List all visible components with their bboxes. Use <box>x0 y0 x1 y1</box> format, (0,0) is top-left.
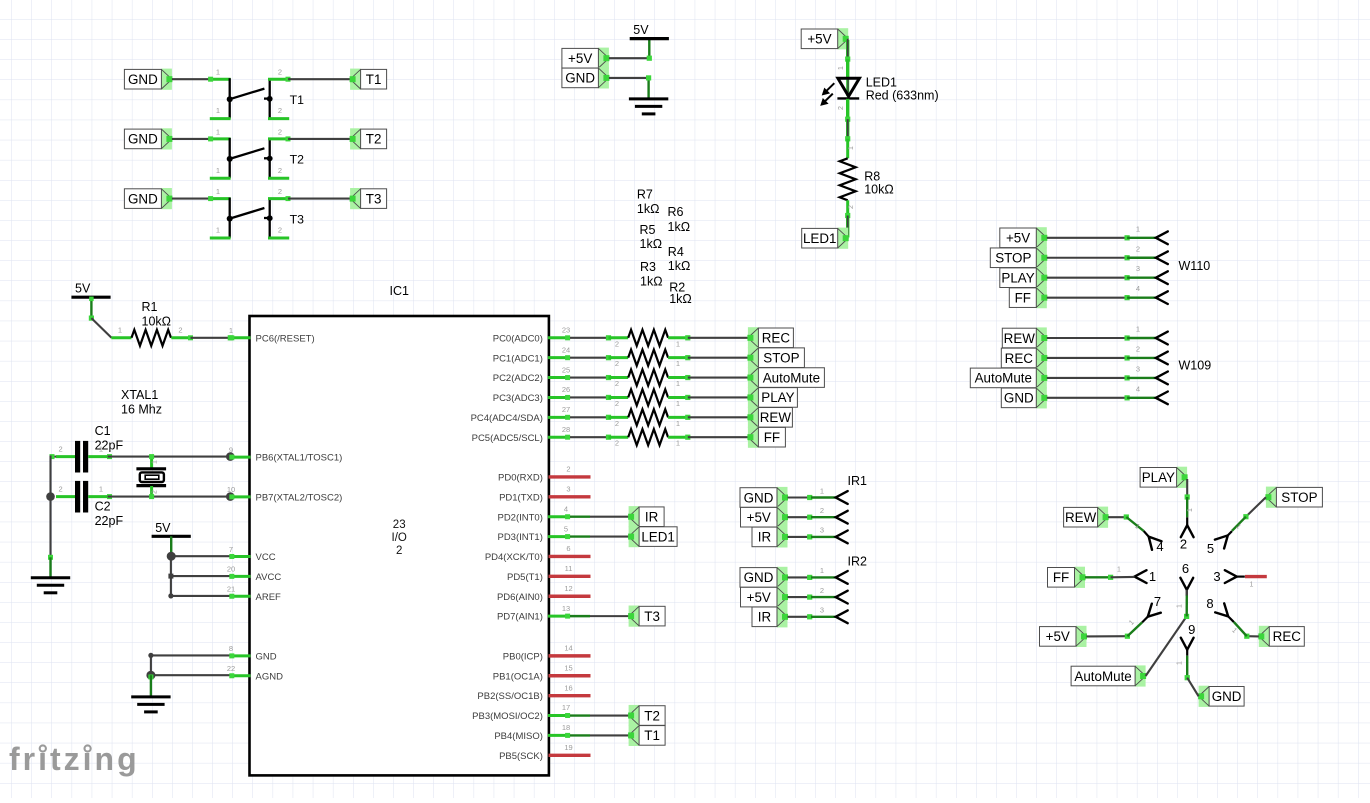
IC1 pin 23 PC0(ADC0) <box>493 326 570 345</box>
resistor value labels R7..R2 <box>637 188 692 306</box>
net label T2 (swT2-out) <box>350 128 387 149</box>
svg-text:GND: GND <box>744 570 774 585</box>
power +5V rail symbol <box>630 23 669 39</box>
svg-text:+5V: +5V <box>747 590 771 605</box>
svg-text:REC: REC <box>1005 351 1034 366</box>
star connector pin 8 fork <box>1206 596 1233 622</box>
star connector pin 5 fork <box>1207 531 1232 556</box>
svg-text:2: 2 <box>278 127 282 136</box>
svg-text:9: 9 <box>229 445 233 454</box>
svg-text:10: 10 <box>227 485 235 494</box>
svg-text:PB0(ICP): PB0(ICP) <box>503 651 543 662</box>
wire R8 to LED1 label <box>845 213 850 238</box>
svg-text:T1: T1 <box>644 728 660 743</box>
svg-text:1: 1 <box>229 326 233 335</box>
net label +5V (w110-+5V) <box>1000 227 1048 248</box>
wire AutoMute to star pin 6 <box>1146 590 1190 676</box>
svg-text:VCC: VCC <box>256 552 276 563</box>
svg-text:3: 3 <box>1136 364 1140 373</box>
svg-text:2: 2 <box>1136 244 1140 253</box>
IC1 pin 16 PB2(SS/OC1B) (unconnected) <box>477 683 590 702</box>
svg-text:R5: R5 <box>640 223 656 237</box>
wire GND to switch T2 pin1 <box>172 138 211 140</box>
svg-text:R3: R3 <box>640 260 656 274</box>
wire resistor R7 to REC label <box>685 335 748 340</box>
power 5V rail (R1) <box>71 282 110 298</box>
svg-text:25: 25 <box>562 365 570 374</box>
connector W109 name <box>1179 359 1212 373</box>
net label T1 (swT1-out) <box>350 69 387 90</box>
wire W109 pin 1 <box>1047 325 1156 341</box>
W109 pin 4 fork <box>1156 392 1168 405</box>
svg-text:2: 2 <box>59 485 63 494</box>
svg-text:PB7(XTAL2/TOSC2): PB7(XTAL2/TOSC2) <box>256 492 343 503</box>
IC1 pin 5 PD3(INT1) <box>497 524 570 543</box>
IC1 pin 2 PD0(RXD) (unconnected) <box>498 465 590 484</box>
svg-text:R4: R4 <box>668 245 684 259</box>
wire IR2 pin 1 <box>788 566 836 580</box>
svg-text:PB6(XTAL1/TOSC1): PB6(XTAL1/TOSC1) <box>256 453 343 464</box>
net label LED1 (led-out) <box>802 228 849 249</box>
svg-text:2: 2 <box>396 545 402 557</box>
svg-text:6: 6 <box>566 544 570 553</box>
svg-text:1: 1 <box>676 379 680 388</box>
svg-text:AutoMute: AutoMute <box>1074 669 1131 684</box>
svg-text:2: 2 <box>1136 344 1140 353</box>
svg-text:1kΩ: 1kΩ <box>640 275 663 289</box>
svg-text:2: 2 <box>1180 537 1187 552</box>
net label GND (swT3-gnd) <box>124 188 172 209</box>
IR2 pin 2 fork <box>836 591 848 604</box>
svg-text:1kΩ: 1kΩ <box>640 237 663 251</box>
svg-text:PD5(T1): PD5(T1) <box>507 572 543 583</box>
IC1 pin 25 PC2(ADC2) <box>493 365 570 384</box>
wire PLAY to star pin 2 <box>1185 479 1194 517</box>
net label +5V (IR1-+5V) <box>741 507 789 528</box>
svg-text:1: 1 <box>1187 508 1194 512</box>
svg-text:1: 1 <box>1149 569 1156 584</box>
IC1 pin 26 PC3(ADC3) <box>493 385 570 404</box>
LED LED1 Red (633nm) <box>820 76 938 106</box>
svg-text:1: 1 <box>820 486 824 495</box>
svg-text:IR2: IR2 <box>848 555 868 569</box>
net label +5V (IR2-+5V) <box>741 587 789 608</box>
net label STOP (res-STOP) <box>747 347 804 368</box>
net label T1 (ic-T1) <box>628 725 665 746</box>
net label REW (star-REW) <box>1064 507 1109 528</box>
IC1 pin 22 AGND <box>227 664 283 682</box>
svg-text:22: 22 <box>227 664 235 673</box>
svg-text:PC6(/RESET): PC6(/RESET) <box>256 333 315 344</box>
svg-text:PC3(ADC3): PC3(ADC3) <box>493 393 543 404</box>
svg-text:PLAY: PLAY <box>761 390 794 405</box>
net label AutoMute (star-AutoMute) <box>1071 665 1146 686</box>
wire W110 pin 1 <box>1047 224 1156 240</box>
svg-text:fritzing: fritzing <box>9 741 140 777</box>
IC1 pin 19 PB5(SCK) (unconnected) <box>499 743 590 762</box>
svg-text:5: 5 <box>1207 541 1214 556</box>
wire GND/AGND to ground <box>146 653 230 696</box>
svg-text:+5V: +5V <box>1046 629 1070 644</box>
svg-text:22pF: 22pF <box>95 514 124 528</box>
wire T2 net from IC <box>570 714 629 716</box>
wire 5V to VCC/AVCC/AREF <box>167 536 231 598</box>
star connector pin 6 fork <box>1180 561 1193 596</box>
wire PC3 to resistor R4 <box>570 395 611 400</box>
svg-text:1: 1 <box>1250 582 1254 589</box>
IC1 pin 14 PB0(ICP) (unconnected) <box>503 644 591 663</box>
IC1 pin 27 PC4(ADC4/SDA) <box>471 405 571 424</box>
capacitor C1 22pF <box>56 424 123 473</box>
wire IR net from IC <box>570 516 629 518</box>
svg-text:C2: C2 <box>95 500 111 514</box>
svg-text:IR: IR <box>645 510 659 525</box>
svg-text:1kΩ: 1kΩ <box>668 220 691 234</box>
svg-text:2: 2 <box>615 399 619 408</box>
wire W110 pin 2 <box>1047 244 1156 260</box>
svg-text:PD4(XCK/T0): PD4(XCK/T0) <box>485 552 543 563</box>
star connector pin 1 fork <box>1135 569 1157 584</box>
net label GND (pwr-gnd) <box>562 67 610 88</box>
svg-text:PB4(MISO): PB4(MISO) <box>494 731 543 742</box>
IC1 pin 7 VCC <box>229 545 276 563</box>
power 5V rail (VCC) <box>152 521 191 537</box>
svg-text:T3: T3 <box>644 609 660 624</box>
svg-text:3: 3 <box>1213 569 1220 584</box>
net label IR (IR1-IR) <box>752 526 788 547</box>
svg-text:1kΩ: 1kΩ <box>668 259 691 273</box>
switch T1 <box>208 68 304 119</box>
svg-text:T3: T3 <box>290 212 305 226</box>
wire IR2 pin 3 <box>788 606 836 620</box>
resistor R3 1k <box>609 409 688 428</box>
svg-text:GND: GND <box>128 191 158 206</box>
net label +5V (pwr-5v) <box>562 48 610 69</box>
ground symbol (top middle) <box>629 99 668 114</box>
wire W110 pin 4 <box>1047 284 1156 300</box>
svg-text:5V: 5V <box>75 282 91 296</box>
svg-text:18: 18 <box>562 723 570 732</box>
svg-text:2: 2 <box>566 465 570 474</box>
star pin 3 unconnected stub <box>1245 577 1267 589</box>
wire PC2 to resistor R5 <box>570 375 611 380</box>
svg-text:5: 5 <box>564 524 568 533</box>
resistor R6 1k <box>609 350 688 369</box>
svg-text:2: 2 <box>615 439 619 448</box>
net label REC (star-REC) <box>1258 626 1304 647</box>
net label T3 (ic-T3) <box>628 606 665 627</box>
wire PC4 to resistor R3 <box>570 415 611 420</box>
svg-text:AVCC: AVCC <box>256 572 282 583</box>
svg-text:PC0(ADC0): PC0(ADC0) <box>493 333 543 344</box>
wire PC0 to resistor R7 <box>570 335 611 340</box>
svg-text:17: 17 <box>562 703 570 712</box>
IC1 pin 21 AREF <box>227 585 281 603</box>
wire IR1 pin 2 <box>788 506 836 520</box>
svg-text:23: 23 <box>393 519 406 531</box>
svg-text:12: 12 <box>564 584 572 593</box>
resistor R7 1k <box>609 330 688 349</box>
svg-text:PD6(AIN0): PD6(AIN0) <box>497 592 543 603</box>
svg-text:2: 2 <box>278 187 282 196</box>
net label GND (w109-GND) <box>1001 387 1047 408</box>
W110 pin 4 fork <box>1156 291 1168 304</box>
connector W110 name <box>1179 259 1211 273</box>
net label GND (IR2-GND) <box>740 567 788 588</box>
svg-text:PB5(SCK): PB5(SCK) <box>499 751 543 762</box>
wire LED1 cathode to R8 <box>838 99 850 142</box>
connector IR2 name <box>848 555 868 569</box>
svg-text:REW: REW <box>1065 510 1097 525</box>
star connector pin 4 fork <box>1144 531 1164 554</box>
svg-text:1: 1 <box>838 66 845 70</box>
wire IR2 pin 2 <box>788 586 836 600</box>
wire PC1 to resistor R6 <box>570 355 611 360</box>
svg-text:2: 2 <box>278 166 282 175</box>
svg-text:2: 2 <box>278 106 282 115</box>
svg-text:T2: T2 <box>290 153 305 167</box>
W109 pin 1 fork <box>1156 332 1168 345</box>
net label +5V (star-5V) <box>1040 626 1088 647</box>
IC1 pin 28 PC5(ADC5/SCL) <box>472 425 571 444</box>
wire C2 to PB7 with crystal junction <box>108 492 235 501</box>
wire switch T1 pin2 to label <box>288 78 350 80</box>
svg-text:Red (633nm): Red (633nm) <box>866 89 939 103</box>
svg-text:9: 9 <box>1188 622 1195 637</box>
wire FF to star pin 1 <box>1085 567 1135 580</box>
svg-text:8: 8 <box>229 644 233 653</box>
resistor R8 10k <box>840 139 894 216</box>
svg-text:IR: IR <box>758 610 772 625</box>
wire W109 pin 3 <box>1047 364 1156 380</box>
svg-text:PD1(TXD): PD1(TXD) <box>499 492 543 503</box>
svg-text:2: 2 <box>59 445 63 454</box>
svg-text:2: 2 <box>820 506 824 515</box>
star connector pin 3 fork <box>1213 569 1244 584</box>
fritzing watermark <box>9 741 140 777</box>
svg-text:24: 24 <box>562 345 570 354</box>
svg-text:7: 7 <box>229 545 233 554</box>
IC1 pin 24 PC1(ADC1) <box>493 345 570 364</box>
svg-text:1: 1 <box>216 68 220 77</box>
svg-text:+5V: +5V <box>1006 231 1030 246</box>
wire GND to switch T1 pin1 <box>172 78 211 80</box>
wire GND to star pin 9 <box>1177 656 1199 697</box>
IC1 pin 20 AVCC <box>227 565 282 583</box>
svg-text:1: 1 <box>1177 661 1184 665</box>
svg-text:1: 1 <box>118 326 122 335</box>
svg-text:27: 27 <box>562 405 570 414</box>
svg-text:2: 2 <box>278 68 282 77</box>
IR1 pin 1 fork <box>836 491 848 504</box>
svg-text:PC5(ADC5/SCL): PC5(ADC5/SCL) <box>472 433 543 444</box>
switch T3 <box>208 187 304 238</box>
net label IR (ic-IR) <box>628 506 664 527</box>
net label +5V (led-5v) <box>801 28 849 49</box>
W110 pin 1 fork <box>1156 231 1168 244</box>
IC1 pin 18 PB4(MISO) <box>494 723 570 742</box>
net label REC (w109-REC) <box>1001 347 1047 368</box>
svg-text:3: 3 <box>566 485 570 494</box>
W109 pin 2 fork <box>1156 352 1168 365</box>
svg-text:2: 2 <box>152 490 159 494</box>
svg-text:W110: W110 <box>1179 259 1211 273</box>
wire T1 net from IC <box>570 734 629 736</box>
svg-text:4: 4 <box>1136 384 1140 393</box>
wire GND to ground <box>609 75 651 98</box>
svg-text:1: 1 <box>99 445 103 454</box>
net label GND (swT2-gnd) <box>124 128 172 149</box>
svg-text:1: 1 <box>820 566 824 575</box>
wire STOP to star pin 5 <box>1232 497 1266 531</box>
wire W109 pin 2 <box>1047 344 1156 360</box>
wire switch T2 pin2 to label <box>288 138 350 140</box>
wire REW to star pin 4 <box>1108 514 1144 531</box>
net label FF (star-FF) <box>1048 567 1086 588</box>
svg-text:16: 16 <box>564 683 572 692</box>
svg-text:1: 1 <box>1117 567 1121 574</box>
svg-text:IR: IR <box>758 530 772 545</box>
net label LED1 (ic-LED1) <box>628 526 677 547</box>
IC1 pin 17 PB3(MOSI/OC2) <box>472 703 570 722</box>
svg-text:T1: T1 <box>366 72 382 87</box>
wire resistor R4 to PLAY label <box>685 395 748 400</box>
svg-text:T2: T2 <box>644 708 660 723</box>
IC1 pin 10 PB7(XTAL2/TOSC2) <box>227 485 342 503</box>
svg-text:GND: GND <box>128 72 158 87</box>
svg-text:2: 2 <box>848 205 855 209</box>
svg-text:GND: GND <box>1212 689 1242 704</box>
IC1 pin 8 GND <box>229 644 277 662</box>
wire resistor R2 to FF label <box>685 435 748 440</box>
net label PLAY (res-PLAY) <box>747 387 797 408</box>
svg-text:STOP: STOP <box>1281 490 1317 505</box>
svg-text:PB2(SS/OC1B): PB2(SS/OC1B) <box>477 691 542 702</box>
svg-text:R8: R8 <box>864 170 880 184</box>
svg-text:REC: REC <box>762 331 791 346</box>
svg-text:1: 1 <box>676 419 680 428</box>
wire C1/C2 left to ground <box>46 454 56 577</box>
wire +5V to 5V rail <box>609 39 652 61</box>
svg-text:PD7(AIN1): PD7(AIN1) <box>497 612 543 623</box>
net label GND (star-GND) <box>1198 686 1244 707</box>
svg-text:4: 4 <box>1136 284 1140 293</box>
IC1 pin 6 PD4(XCK/T0) (unconnected) <box>485 544 591 563</box>
svg-text:+5V: +5V <box>568 51 592 66</box>
wire +5V to star pin 7 <box>1087 619 1143 639</box>
svg-text:2: 2 <box>615 419 619 428</box>
IR2 pin 1 fork <box>836 571 848 584</box>
wire C1 to PB6 with crystal junction <box>108 452 235 461</box>
svg-text:2: 2 <box>820 586 824 595</box>
net label T2 (ic-T2) <box>628 705 665 726</box>
svg-text:13: 13 <box>562 604 570 613</box>
net label AutoMute (w109-AutoMute) <box>970 367 1047 388</box>
svg-text:3: 3 <box>820 606 824 615</box>
wire resistor R6 to STOP label <box>685 355 748 360</box>
wire LED1 net from IC <box>570 535 629 537</box>
net label T3 (swT3-out) <box>350 188 387 209</box>
svg-text:FF: FF <box>764 430 780 445</box>
svg-text:1: 1 <box>152 460 159 464</box>
svg-text:LED1: LED1 <box>641 529 675 544</box>
svg-text:2: 2 <box>615 339 619 348</box>
ground symbol (IC) <box>131 697 170 712</box>
net label STOP (w110-STOP) <box>990 247 1047 268</box>
svg-text:AutoMute: AutoMute <box>975 371 1032 386</box>
IC1 pin 1 PC6(/RESET) <box>229 326 315 344</box>
svg-text:1kΩ: 1kΩ <box>637 202 660 216</box>
net label PLAY (star-PLAY) <box>1140 467 1188 488</box>
resistor R1 10k <box>111 300 190 346</box>
star connector pin 9 fork <box>1181 622 1196 656</box>
svg-text:AGND: AGND <box>256 671 284 682</box>
svg-text:I/O: I/O <box>392 532 407 544</box>
svg-text:1: 1 <box>1136 224 1140 233</box>
svg-text:LED1: LED1 <box>803 231 837 246</box>
svg-text:W109: W109 <box>1179 359 1212 373</box>
svg-text:14: 14 <box>564 644 572 653</box>
svg-text:STOP: STOP <box>995 251 1031 266</box>
IR2 pin 3 fork <box>836 610 848 623</box>
svg-text:2: 2 <box>178 326 182 335</box>
svg-text:8: 8 <box>1206 596 1213 611</box>
svg-text:GND: GND <box>256 651 277 662</box>
svg-text:PB1(OC1A): PB1(OC1A) <box>493 671 543 682</box>
svg-text:20: 20 <box>227 565 235 574</box>
connector IR1 name <box>848 474 868 488</box>
svg-text:1: 1 <box>676 439 680 448</box>
ground symbol (left) <box>31 578 70 593</box>
IC1 pin 3 PD1(TXD) (unconnected) <box>499 485 590 504</box>
svg-text:FF: FF <box>1053 570 1069 585</box>
svg-text:PD3(INT1): PD3(INT1) <box>497 532 542 543</box>
net label REW (res-REW) <box>747 407 792 428</box>
svg-text:T2: T2 <box>366 132 382 147</box>
svg-text:11: 11 <box>565 564 573 573</box>
svg-text:6: 6 <box>1182 561 1189 576</box>
star connector pin 2 fork <box>1180 517 1194 551</box>
svg-text:PLAY: PLAY <box>1001 271 1034 286</box>
net label PLAY (w110-PLAY) <box>1000 267 1048 288</box>
svg-text:1kΩ: 1kΩ <box>669 292 692 306</box>
IC1 pin 15 PB1(OC1A) (unconnected) <box>493 663 591 682</box>
wire resistor R3 to REW label <box>685 415 748 420</box>
svg-text:28: 28 <box>562 425 570 434</box>
svg-text:3: 3 <box>1136 264 1140 273</box>
svg-text:XTAL1: XTAL1 <box>121 388 158 402</box>
svg-text:REC: REC <box>1273 629 1302 644</box>
svg-text:16 Mhz: 16 Mhz <box>121 403 162 417</box>
net label REC (res-REC) <box>747 327 793 348</box>
svg-text:T3: T3 <box>366 191 382 206</box>
svg-text:1: 1 <box>216 166 220 175</box>
svg-text:15: 15 <box>564 663 572 672</box>
wire R1 to PC6 <box>188 335 233 340</box>
svg-text:LED1: LED1 <box>866 76 897 90</box>
IC1 pin 11 PD5(T1) (unconnected) <box>507 564 591 583</box>
W110 pin 3 fork <box>1156 271 1168 284</box>
wire W109 pin 4 <box>1047 384 1156 400</box>
IC1 pin 4 PD2(INT0) <box>497 504 570 523</box>
IR1 pin 2 fork <box>836 511 848 524</box>
svg-text:AREF: AREF <box>256 592 282 603</box>
svg-text:4: 4 <box>1156 539 1163 554</box>
W109 pin 3 fork <box>1156 372 1168 385</box>
wire +5V to LED1 anode <box>838 39 850 78</box>
svg-text:4: 4 <box>564 504 568 513</box>
svg-text:IC1: IC1 <box>389 284 409 298</box>
